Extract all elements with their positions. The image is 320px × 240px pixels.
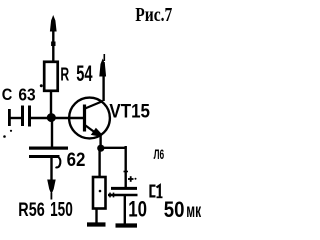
wire base node to transistor base xyxy=(53,117,83,119)
label C1 xyxy=(151,185,163,197)
capacitor C1 (electrolytic) xyxy=(108,176,138,197)
svg-text:C: C xyxy=(2,86,13,104)
resistor R 54 xyxy=(44,62,58,91)
svg-text:50: 50 xyxy=(164,199,185,223)
wire resistor bottom to base node xyxy=(50,91,52,117)
value label 62 xyxy=(67,149,86,170)
svg-text:150: 150 xyxy=(50,198,73,220)
ground bar (resistor 10) xyxy=(87,222,106,226)
wire resistor 10 to ground xyxy=(95,209,97,224)
wire capacitor C1 to ground xyxy=(124,196,126,224)
wire emitter node right then down to capacitor C1 xyxy=(102,146,128,187)
wire base node down to capacitor 62 xyxy=(51,121,53,147)
svg-text:Рис.7: Рис.7 xyxy=(135,3,172,25)
wire emitter node to resistor 10 xyxy=(98,150,100,177)
value label R 54 xyxy=(60,61,93,86)
speck near resistor xyxy=(40,84,43,87)
svg-text:R56: R56 xyxy=(18,199,44,220)
collector arrow (output) xyxy=(99,54,106,101)
node label Л6 xyxy=(154,148,164,162)
ground arrow (common) xyxy=(47,158,56,200)
svg-text:мк: мк xyxy=(186,200,201,222)
wire transistor emitter down to node xyxy=(99,136,101,149)
resistor 10 (emitter) xyxy=(93,177,106,209)
label VT15 xyxy=(109,99,150,121)
svg-text:63: 63 xyxy=(18,84,35,104)
capacitor 62 xyxy=(29,147,68,168)
node base junction xyxy=(47,113,56,122)
value label C 63 xyxy=(2,84,36,104)
value label 50мк xyxy=(164,199,202,223)
wire terminal to capacitor xyxy=(10,117,21,119)
node emitter junction xyxy=(97,145,104,152)
value label 10 xyxy=(128,198,147,223)
ground bar (capacitor C1) xyxy=(116,223,138,227)
capacitor C 63 (input coupling) xyxy=(21,106,31,127)
svg-text:R: R xyxy=(60,65,69,85)
svg-text:10: 10 xyxy=(128,198,147,223)
figure caption Рис.7 xyxy=(135,3,172,25)
value label R56 150 xyxy=(18,198,72,220)
svg-text:62: 62 xyxy=(67,149,86,170)
supply arrow (+ rail) xyxy=(50,15,57,61)
svg-text:VT15: VT15 xyxy=(109,99,150,121)
input terminal xyxy=(8,109,12,132)
speck xyxy=(3,135,6,138)
wire capacitor to base node xyxy=(31,117,48,119)
svg-text:Л6: Л6 xyxy=(154,148,164,162)
svg-text:54: 54 xyxy=(76,61,93,86)
transistor VT15 xyxy=(69,98,110,139)
